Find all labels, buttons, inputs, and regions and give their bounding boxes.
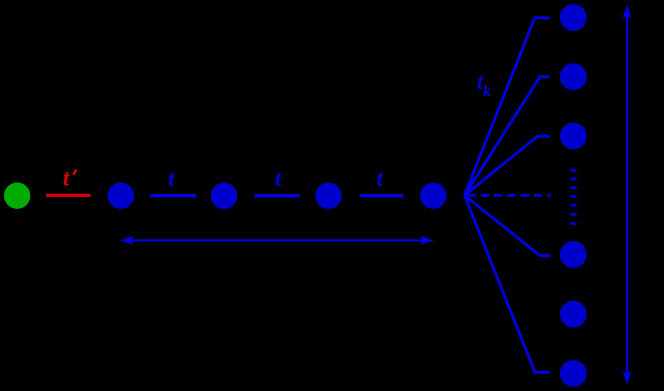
node 2 (chain site) [211, 183, 237, 209]
svg-text:t: t [275, 166, 282, 191]
wire: hopping bond t (1-2) [150, 194, 196, 197]
wire: fan line to bath level 2 [465, 77, 550, 196]
node 4 (chain site) [420, 183, 446, 209]
bath node N-2 [560, 241, 587, 268]
node 1 (chain site) [108, 183, 134, 209]
wire: fan line to bath level N [465, 195, 551, 372]
wire: fan line to bath level N-1 [465, 195, 551, 255]
vertical extent double arrow (bath bandwidth) [623, 5, 632, 385]
wire: dashed fan line (level k) [468, 194, 551, 197]
horizontal extent double arrow (chain length) [120, 236, 433, 245]
node 0 (impurity site, green) [4, 183, 30, 209]
wire: hopping bond t' (red) [46, 194, 90, 197]
svg-text:t: t [168, 166, 175, 191]
wire: hopping bond t (3-4) [360, 194, 403, 197]
bath node 3 [560, 123, 587, 150]
svg-text:t: t [63, 165, 70, 190]
node 3 (chain site) [315, 183, 341, 209]
bath node 1 [560, 4, 587, 31]
svg-text:t: t [376, 166, 383, 191]
dotted ellipsis column [570, 169, 576, 225]
wire: hopping bond t (2-3) [254, 194, 299, 197]
wire: fan line to bath level 1 [465, 18, 550, 196]
bath node N [560, 360, 587, 387]
bath node 2 [560, 63, 587, 90]
bath node N-1 [560, 301, 587, 328]
wire: fan line to bath level 3 [465, 136, 550, 195]
